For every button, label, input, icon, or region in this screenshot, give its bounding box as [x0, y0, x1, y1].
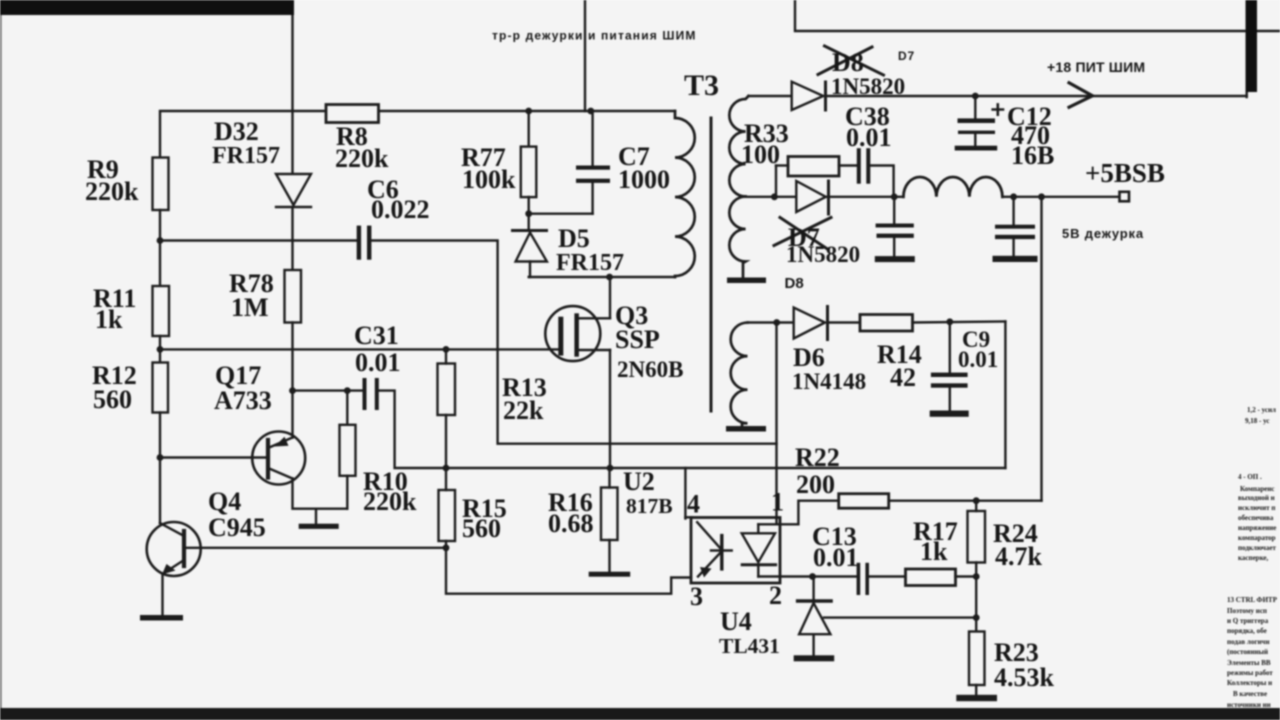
wire R11 bottom [159, 336, 161, 349]
svg-text:4.7k: 4.7k [995, 542, 1043, 571]
svg-text:TL431: TL431 [719, 634, 780, 658]
svg-text:16В: 16В [1011, 141, 1054, 170]
wire R77 top [528, 111, 530, 147]
optocoupler U2 LED [742, 533, 775, 562]
svg-text:2: 2 [769, 581, 782, 610]
resistor R9 [153, 158, 169, 211]
top-right black masked strip [1246, 0, 1257, 92]
svg-text:и Q триггера: и Q триггера [1227, 617, 1269, 625]
resistor R11 [153, 286, 170, 336]
svg-text:560: 560 [93, 385, 132, 414]
node R13 bottom dot [443, 465, 450, 472]
svg-text:0.022: 0.022 [371, 195, 430, 224]
svg-text:компаратор: компаратор [1238, 534, 1276, 542]
wire Q3 drain row y=277 [529, 276, 675, 278]
svg-text:SSP: SSP [615, 325, 660, 354]
top-left black masked bar [0, 0, 294, 15]
transformer T3 primary winding [675, 111, 695, 277]
svg-text:(постоянный: (постоянный [1227, 648, 1268, 656]
terminal +5BSB [1120, 192, 1130, 202]
node R77-D5 dot [525, 210, 532, 217]
cross-out X over D7 label [774, 218, 831, 250]
capacitor 5V filter 1 [893, 197, 895, 224]
capacitor C38 [857, 148, 861, 184]
diode D7 crossed out [796, 181, 826, 212]
wire +18 rail [826, 95, 1247, 97]
wire snubber tap row y=196.8 [746, 196, 797, 198]
shunt regulator U4 TL431 [812, 577, 814, 601]
wire Q4 emitter to ground [161, 574, 163, 615]
node C9 top dot [946, 318, 953, 325]
wire R10 top [346, 391, 348, 425]
wire R14 to C9 node [913, 322, 1006, 323]
resistor R16 [601, 488, 618, 541]
svg-text:42: 42 [890, 363, 916, 392]
svg-text:D8: D8 [832, 48, 864, 77]
svg-text:4: 4 [687, 490, 700, 519]
svg-text:2N60B: 2N60B [617, 357, 683, 382]
node cap2 dot [1010, 193, 1017, 200]
wire R22 right to +5VSB rail [889, 500, 1042, 502]
ground U4 [794, 655, 835, 661]
wire Q4 collector [159, 458, 161, 524]
wire vertical from top edge x=795 with corner to right edge [795, 0, 1280, 31]
wire R10 bottom [346, 476, 348, 509]
wire C9 box right edge [1004, 322, 1006, 469]
resistor R22 [839, 494, 889, 509]
svg-text:D5: D5 [558, 224, 590, 253]
ground C9 [930, 411, 969, 417]
wire D6 row y=322.5 [748, 321, 794, 323]
wire C31 right corner down [379, 391, 1006, 468]
svg-text:D7: D7 [898, 49, 915, 63]
svg-text:D8: D8 [785, 275, 804, 292]
optocoupler U2 box [691, 518, 780, 584]
resistor R78 [285, 270, 302, 323]
svg-text:тр-р дежурки и питания ШИМ: тр-р дежурки и питания ШИМ [492, 29, 697, 43]
node Q3 drain dot [606, 274, 613, 281]
svg-text:U2: U2 [623, 467, 655, 496]
wire C6 right to corner down to bottom rail [371, 241, 776, 444]
wire pin1 link [758, 501, 838, 525]
svg-text:касперке,: касперке, [1238, 554, 1269, 562]
ground T3 tertiary [726, 426, 766, 432]
svg-text:100: 100 [741, 140, 780, 169]
svg-text:T3: T3 [684, 69, 719, 102]
resistor R77 [521, 147, 537, 198]
wire feedback row y=240.5 [160, 239, 357, 241]
svg-text:+18 ПИТ ШИМ: +18 ПИТ ШИМ [1047, 59, 1145, 75]
svg-text:1N4148: 1N4148 [792, 369, 866, 394]
svg-text:исключит п: исключит п [1238, 504, 1275, 512]
wire Q4 base row y=547.8 [184, 547, 446, 549]
svg-text:Q4: Q4 [208, 487, 241, 516]
arrow +18 output [1069, 83, 1093, 107]
node C junction dot [157, 454, 164, 461]
svg-text:1k: 1k [920, 537, 948, 566]
wire D5 top row y=213.7 [529, 212, 593, 214]
transformer T3 secondary winding upper [729, 96, 748, 197]
wire D32 to R78 [291, 207, 293, 270]
wire TL431 ref [824, 616, 976, 618]
capacitor C9 [949, 322, 951, 373]
svg-text:220k: 220k [85, 177, 139, 206]
wire gate row y=349.4 [160, 348, 558, 350]
capacitor C13 [857, 563, 861, 595]
svg-text:200: 200 [796, 470, 835, 499]
node B junction dot [157, 346, 164, 353]
svg-text:A733: A733 [214, 386, 272, 415]
capacitor C7 [591, 111, 593, 167]
resistor R14 [860, 315, 913, 332]
svg-text:1M: 1M [231, 293, 269, 322]
node cap1 dot [891, 193, 898, 200]
node R24 top dot [973, 497, 980, 504]
svg-text:C945: C945 [208, 513, 266, 542]
svg-text:порядка, обе: порядка, обе [1227, 627, 1267, 635]
wire Q17 base row [160, 456, 268, 458]
node R15 bottom dot [443, 544, 450, 551]
wire Q17 collector to ground row [293, 479, 348, 509]
transformer T3 secondary winding lower [729, 197, 745, 278]
resistor R23 [969, 632, 985, 686]
resistor R24 [968, 511, 986, 563]
top-left scan nub [0, 0, 6, 3]
svg-text:1,2 - усил: 1,2 - усил [1247, 406, 1276, 414]
node +5VSB rail dot [1038, 193, 1045, 200]
svg-text:0.01: 0.01 [846, 123, 892, 152]
svg-text:Коллекторы н: Коллекторы н [1227, 679, 1272, 687]
svg-text:Компаренс: Компаренс [1240, 485, 1275, 493]
ground 5V filter 1 [875, 256, 915, 262]
svg-text:817B: 817B [626, 494, 673, 518]
wire vertical from top edge x=585 [584, 0, 586, 111]
svg-text:1N5820: 1N5820 [786, 242, 860, 267]
diode D8 [792, 82, 824, 110]
wire pin2 link [758, 575, 812, 577]
svg-text:D32: D32 [214, 117, 259, 146]
wire Q3 drain vertical [609, 277, 611, 318]
svg-text:9,18 - ус: 9,18 - ус [1245, 417, 1269, 425]
node A junction dot [157, 237, 164, 244]
svg-text:D6: D6 [793, 343, 825, 372]
resistor R17 [906, 569, 956, 586]
node R24 bottom dot [973, 573, 980, 580]
wire D6 to R14 [828, 321, 861, 323]
transistor Q3 MOSFET [545, 306, 600, 361]
node snubber left dot [771, 193, 778, 200]
ground R16 [589, 572, 631, 577]
resistor R33 [788, 157, 839, 177]
capacitor C31 [363, 378, 367, 410]
svg-text:подключает: подключает [1238, 544, 1276, 552]
node Q17 base dot [289, 387, 296, 394]
svg-text:1000: 1000 [618, 165, 670, 194]
svg-text:U4: U4 [720, 607, 752, 636]
cross-out X over D8 label [818, 46, 884, 75]
ground R23 [956, 695, 997, 701]
inductor 5V choke [903, 177, 1002, 197]
svg-text:+5BSB: +5BSB [1085, 158, 1165, 188]
svg-text:220k: 220k [363, 487, 417, 516]
transistor Q17 [252, 432, 305, 485]
svg-text:1N5820: 1N5820 [831, 74, 905, 99]
svg-text:FR157: FR157 [212, 143, 280, 169]
svg-text:Поэтому исп: Поэтому исп [1227, 607, 1267, 615]
diode D32 [276, 174, 311, 205]
wire C38 right riser [870, 166, 893, 197]
svg-text:4.53k: 4.53k [994, 663, 1055, 692]
svg-text:напряжение: напряжение [1238, 524, 1276, 532]
svg-text:220k: 220k [335, 144, 389, 173]
svg-text:0.01: 0.01 [958, 347, 998, 372]
svg-text:3: 3 [690, 582, 703, 611]
resistor R15 [439, 490, 456, 541]
wire opto pin3 return [446, 548, 691, 594]
svg-text:100k: 100k [462, 165, 516, 194]
optocoupler U2 phototransistor [697, 522, 721, 549]
svg-text:C31: C31 [354, 321, 399, 350]
wire left column x=160 [159, 241, 161, 287]
svg-text:источники ни: источники ни [1227, 701, 1271, 709]
svg-text:обеспечива: обеспечива [1238, 514, 1274, 522]
node R13 top dot [443, 346, 450, 353]
node C7 top dot [587, 108, 594, 115]
node R16 top dot [607, 465, 614, 472]
svg-text:22k: 22k [503, 396, 544, 425]
svg-text:FR157: FR157 [556, 250, 624, 276]
wire opto pin4 drop [684, 468, 686, 519]
ground C12 [955, 146, 998, 151]
svg-text:В качестве: В качестве [1233, 690, 1267, 698]
node C13 dot [809, 573, 816, 580]
wire D6 node vertical x=776.5 [775, 323, 777, 525]
resistor R10 [340, 425, 356, 476]
svg-text:режимы работ: режимы работ [1227, 669, 1273, 677]
svg-text:выходной н: выходной н [1238, 494, 1275, 502]
ground Q17 [315, 509, 317, 524]
wire Q3 source vertical [609, 350, 611, 468]
capacitor 5V filter 2 [1012, 197, 1014, 225]
ground T3 secondary [727, 278, 766, 284]
svg-text:подав логичн: подав логичн [1227, 638, 1270, 646]
node R77 top dot [525, 108, 532, 115]
left edge scan line [0, 0, 2, 708]
wire vertical top right x=1246.7 [1245, 0, 1247, 97]
wire 5V output [1002, 196, 1119, 198]
svg-text:0.68: 0.68 [548, 509, 594, 538]
wire 5V rail to choke [826, 196, 904, 198]
resistor R12 [153, 363, 169, 413]
svg-text:5В дежурка: 5В дежурка [1062, 226, 1144, 241]
diode D5 [513, 229, 547, 232]
svg-text:0.01: 0.01 [813, 543, 859, 572]
svg-text:R22: R22 [795, 443, 840, 472]
wire vertical from top edge x=292.5 [291, 0, 293, 174]
capacitor C12 [974, 96, 976, 118]
node D6 anode dot [773, 319, 780, 326]
node C12 top dot [972, 93, 979, 100]
svg-text:560: 560 [462, 514, 501, 543]
svg-text:1k: 1k [95, 305, 123, 334]
transformer T3 tertiary winding [731, 323, 748, 427]
svg-text:Элементы ВВ: Элементы ВВ [1227, 659, 1271, 667]
wire Q17 emitter node row y=390.6 [293, 389, 363, 391]
wire +5VSB rail down [1040, 197, 1042, 501]
ground Q4 [140, 615, 183, 621]
transformer T3 core [710, 118, 713, 411]
svg-text:13 CTRL ФИТР: 13 CTRL ФИТР [1227, 596, 1278, 604]
diode D6 [794, 308, 825, 339]
ground 5V filter 2 [993, 256, 1038, 262]
node TL431 ref dot [973, 614, 980, 621]
svg-text:0.01: 0.01 [355, 348, 401, 377]
svg-text:4 - ОП .: 4 - ОП . [1238, 473, 1262, 481]
wire secondary top to D8 [749, 95, 792, 97]
wire R77 bottom [528, 197, 530, 229]
resistor R8 [326, 105, 379, 123]
svg-text:1: 1 [771, 488, 784, 517]
wire R78 bottom to Q17 base node [291, 323, 293, 438]
resistor R13 [438, 364, 456, 416]
wire top rail y=111 [160, 111, 675, 158]
wire R12 column [159, 349, 161, 362]
transistor Q4 [147, 522, 201, 576]
wire R9 bottom to node [159, 210, 161, 241]
wire R12 bottom to Q4 [159, 413, 161, 458]
bottom black bar [0, 708, 1280, 720]
wire R33 left riser [775, 166, 777, 197]
node C31 left dot [344, 387, 351, 394]
capacitor C6 [357, 226, 361, 260]
